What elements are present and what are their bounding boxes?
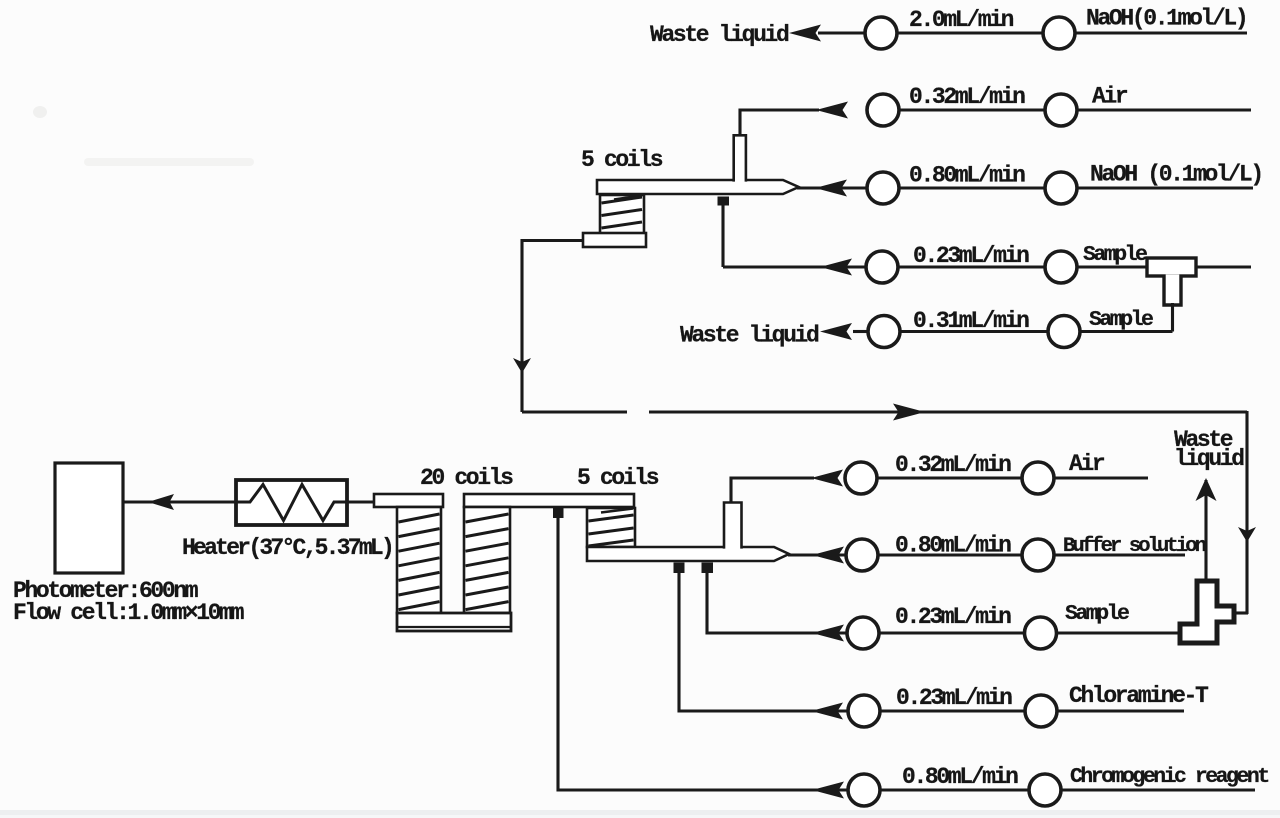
wire row4 tee-to-right	[1195, 265, 1251, 268]
wire row3 between pumps	[899, 186, 1046, 189]
wire row5 arrow-to-pump	[853, 330, 869, 333]
tee fitting upper sample splitter	[1147, 258, 1196, 276]
mixing tube upper manifold	[597, 180, 799, 194]
wire row2 corner into tube	[740, 110, 819, 140]
svg-text:0.32mL/min: 0.32mL/min	[895, 452, 1011, 478]
pump P1	[865, 17, 897, 49]
arrow flow right	[893, 404, 925, 421]
junction A under lower tube	[674, 563, 685, 574]
wire row8 between pumps	[879, 631, 1024, 634]
pump P6	[1045, 172, 1077, 204]
wire transfer right segment	[649, 410, 1247, 413]
wire row7 to right	[1054, 553, 1185, 556]
wire row6 to right	[1054, 476, 1148, 479]
svg-text:liquid: liquid	[1174, 446, 1244, 472]
wire junction B down to row8	[707, 573, 847, 633]
wire row4 pump-to-tee	[1078, 265, 1148, 268]
inlet tube vertical lower	[724, 503, 742, 549]
coil base upper	[583, 233, 646, 247]
wire row6 corner into tube	[731, 478, 814, 503]
wire row5 between pumps	[901, 330, 1049, 333]
pump P5	[867, 172, 899, 204]
svg-text:NaOH (0.1mol/L): NaOH (0.1mol/L)	[1090, 162, 1262, 188]
arrow into photometer	[148, 494, 174, 510]
wire row1 arrow-to-pump	[818, 31, 866, 34]
svg-text:Buffer solution: Buffer solution	[1063, 535, 1207, 558]
arrow row1 flow left	[789, 25, 821, 42]
wire row7 between pumps	[878, 553, 1022, 556]
wire heater-to-photometer	[123, 500, 236, 503]
pump P18	[1025, 695, 1057, 727]
svg-text:Heater(37°C,5.37mL): Heater(37°C,5.37mL)	[182, 535, 392, 561]
arrow row9 flow left	[811, 703, 843, 720]
svg-text:Chloramine-T: Chloramine-T	[1069, 683, 1209, 709]
wire row10 between pumps	[880, 788, 1029, 791]
inlet tube vertical upper	[734, 135, 746, 181]
wire row3 to right edge	[1078, 186, 1253, 189]
wire junction down to row10	[558, 517, 848, 790]
pump P2	[1043, 17, 1075, 49]
svg-text:20 coils: 20 coils	[420, 465, 513, 491]
pump P13	[846, 539, 878, 571]
arrow row4 flow left	[820, 259, 852, 276]
pump P17	[848, 695, 880, 727]
reactor top bar left	[374, 494, 443, 507]
pump P15	[847, 617, 879, 649]
pump P3	[867, 94, 899, 126]
wire tee stem down	[1171, 303, 1174, 332]
junction B under lower tube	[702, 563, 714, 574]
wire row3 tip-to-pump	[797, 186, 868, 189]
wire transfer left segment	[522, 410, 627, 413]
coil column right of 20 coils	[464, 507, 510, 613]
svg-text:Waste liquid: Waste liquid	[680, 323, 819, 349]
photometer box	[55, 463, 123, 573]
wire row7 tip-to-pump	[788, 553, 846, 556]
arrow row2 flow left	[816, 102, 848, 119]
coil 5 coils lower	[587, 508, 635, 547]
svg-text:0.80mL/min: 0.80mL/min	[895, 533, 1011, 559]
junction under top bar	[553, 507, 564, 518]
arrow row7 flow left	[812, 547, 844, 564]
svg-text:0.80mL/min: 0.80mL/min	[909, 163, 1025, 189]
coil 5 coils upper	[600, 195, 644, 234]
svg-text:Sample: Sample	[1089, 308, 1153, 332]
tee fitting waste debubbler	[1180, 581, 1234, 643]
svg-text:Air: Air	[1069, 451, 1105, 477]
wire row2 between pumps	[899, 108, 1046, 111]
coil column left of 20 coils	[397, 507, 441, 613]
wire row1 to right edge	[1076, 31, 1247, 34]
svg-text:Flow cell:1.0mm×10mm: Flow cell:1.0mm×10mm	[13, 600, 244, 626]
arrow row8 flow left	[812, 625, 844, 642]
pump P11	[845, 462, 877, 494]
svg-text:Air: Air	[1092, 84, 1128, 110]
arrow row6 flow left	[811, 470, 843, 487]
wire row6 between pumps	[877, 476, 1022, 479]
svg-text:5 coils: 5 coils	[581, 147, 663, 173]
svg-text:0.23mL/min: 0.23mL/min	[913, 243, 1029, 269]
wire coil-base down-left	[522, 241, 584, 413]
pump P10	[1048, 316, 1080, 348]
pump P19	[848, 774, 880, 806]
arrow row10 flow left	[812, 782, 844, 799]
svg-text:NaOH(0.1mol/L): NaOH(0.1mol/L)	[1086, 6, 1246, 32]
svg-text:0.23mL/min: 0.23mL/min	[896, 685, 1012, 711]
heater box	[236, 480, 347, 525]
wire row4 between pumps	[898, 265, 1046, 268]
wire row9 between pumps	[880, 709, 1025, 712]
svg-text:Sample: Sample	[1065, 602, 1129, 626]
wire heater inlet	[347, 500, 375, 503]
svg-text:0.31mL/min: 0.31mL/min	[913, 308, 1029, 334]
arrow waste up	[1196, 478, 1217, 501]
pump P8	[1045, 251, 1077, 283]
wire row2 to right edge	[1078, 108, 1251, 111]
pump P14	[1022, 539, 1054, 571]
arrow row5 flow left	[820, 323, 852, 340]
pump P9	[868, 316, 900, 348]
pump P12	[1022, 462, 1054, 494]
pump P7	[866, 251, 898, 283]
svg-text:0.80mL/min: 0.80mL/min	[902, 764, 1018, 790]
wire transfer down right edge	[1245, 411, 1248, 614]
arrow flow down right	[1238, 527, 1256, 542]
svg-text:Sample: Sample	[1083, 243, 1147, 267]
pump P4	[1045, 94, 1077, 126]
pump P20	[1029, 774, 1061, 806]
wire row10 to right	[1061, 788, 1255, 791]
junction under upper tube	[718, 197, 730, 206]
reactor top bar right	[464, 494, 634, 507]
wire waste up from tee	[1204, 480, 1207, 583]
arrow row3 flow left	[815, 180, 847, 197]
wire row1 between pumps	[897, 31, 1046, 34]
svg-text:Chromogenic reagent: Chromogenic reagent	[1070, 765, 1268, 789]
svg-text:Waste liquid: Waste liquid	[650, 22, 789, 48]
wire row9 to right	[1057, 709, 1184, 712]
svg-text:5 coils: 5 coils	[577, 465, 659, 491]
svg-text:0.23mL/min: 0.23mL/min	[895, 604, 1011, 630]
arrow flow down	[513, 358, 531, 373]
wire junction down to row4	[721, 205, 724, 267]
svg-text:2.0mL/min: 2.0mL/min	[909, 7, 1014, 33]
wire into tee side port	[1232, 611, 1248, 614]
wire row8 to tee	[1057, 631, 1182, 634]
mixing tube lower manifold	[587, 547, 789, 561]
heater coil zigzag	[237, 485, 346, 521]
wire row5 pump-to-tee-stem	[1081, 330, 1173, 333]
svg-text:0.32mL/min: 0.32mL/min	[909, 84, 1025, 110]
wire junction A down to row9	[679, 573, 847, 711]
reactor bottom U connector	[397, 613, 511, 631]
pump P16	[1025, 617, 1057, 649]
wire row4 junction-to-pump	[723, 265, 867, 268]
